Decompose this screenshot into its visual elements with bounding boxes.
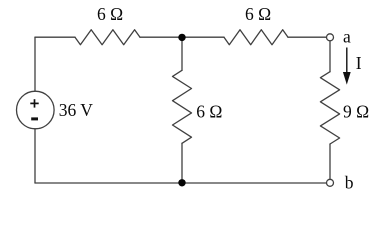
resistor R3 6ohm middle vertical zigzag — [173, 70, 192, 143]
wire top-middle — [140, 36, 224, 38]
svg-text:6 Ω: 6 Ω — [245, 4, 271, 24]
wire left vertical upper — [34, 37, 36, 91]
wire terminal b up — [329, 144, 331, 179]
wire top-left horizontal — [35, 36, 75, 38]
svg-text:6 Ω: 6 Ω — [97, 4, 123, 24]
svg-text:I: I — [356, 53, 362, 73]
terminal b open circle — [327, 179, 334, 186]
current arrow I — [343, 48, 351, 85]
wire terminal a down — [329, 41, 331, 72]
wire middle vertical upper — [181, 37, 183, 70]
node dot top — [178, 34, 185, 41]
voltage source V1 circle — [17, 91, 55, 129]
svg-text:b: b — [345, 173, 354, 193]
wire middle vertical lower — [181, 143, 183, 183]
terminal a open circle — [327, 34, 334, 41]
node dot bottom — [178, 179, 185, 186]
resistor R1 6ohm top-left zigzag — [75, 30, 140, 45]
svg-text:6 Ω: 6 Ω — [196, 102, 222, 122]
voltage source minus sign — [31, 117, 38, 120]
wire bottom horizontal — [35, 182, 326, 184]
svg-text:36 V: 36 V — [59, 100, 94, 120]
resistor R4 9ohm right vertical zigzag — [320, 72, 339, 144]
wire to terminal a — [288, 36, 327, 38]
wire left vertical lower — [34, 129, 36, 183]
svg-text:9 Ω: 9 Ω — [343, 102, 369, 122]
voltage source plus sign — [30, 99, 38, 107]
svg-text:a: a — [343, 27, 351, 47]
resistor R2 6ohm top-right zigzag — [224, 30, 288, 45]
